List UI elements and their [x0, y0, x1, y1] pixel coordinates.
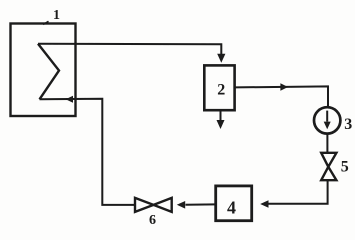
meter 3 (circle)	[314, 107, 340, 133]
arrowhead on wire 2 to 3 (right)	[280, 83, 288, 90]
svg-text:6: 6	[149, 213, 156, 226]
arrowhead into box 4 (left)	[260, 200, 268, 207]
vessel 1 (generator with heating coil)	[11, 24, 76, 117]
wire: box 4 to valve 6	[186, 203, 216, 205]
svg-text:2: 2	[217, 82, 225, 99]
arrowhead into separator 2	[217, 54, 225, 63]
valve 6 (horizontal bowtie)	[135, 198, 154, 212]
svg-text:1: 1	[53, 8, 60, 23]
wire: vessel 1 top outlet to separator 2	[38, 44, 221, 56]
leader tick under label 1	[43, 21, 48, 24]
svg-text:3: 3	[344, 116, 352, 133]
arrowhead into valve 6 (left)	[177, 201, 185, 209]
svg-text:5: 5	[341, 159, 349, 176]
separator 2	[204, 65, 234, 110]
wire: meter 3 to valve 5	[326, 134, 328, 154]
box 4	[216, 186, 252, 221]
svg-text:4: 4	[227, 198, 236, 218]
wire: valve 5 down and left to box 4	[268, 180, 328, 204]
arrowhead vent (down)	[217, 120, 225, 129]
valve 5 (vertical bowtie)	[321, 153, 336, 167]
vent wire below separator 2	[220, 110, 222, 121]
arrowhead into vessel 1 coil (left)	[66, 96, 73, 103]
heating coil zigzag inside vessel 1	[38, 44, 59, 100]
flow arrow inside meter 3	[326, 111, 328, 122]
wire: separator 2 to meter 3	[235, 86, 328, 107]
return wire: valve 6 left, up, and into vessel 1 coil	[40, 99, 136, 205]
